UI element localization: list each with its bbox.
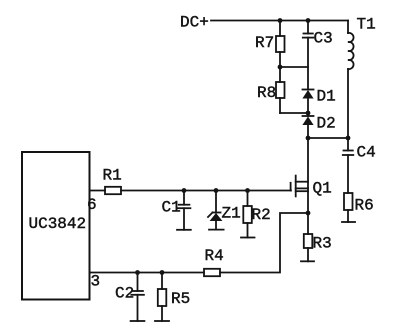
- svg-text:D2: D2: [317, 115, 336, 133]
- resistor R1: [105, 187, 121, 194]
- terminal bar R6 bottom: [342, 221, 355, 223]
- resistor R8: [276, 67, 285, 113]
- svg-text:R8: R8: [257, 84, 276, 102]
- svg-text:R7: R7: [255, 34, 274, 52]
- junction dot top rail / R7: [278, 18, 283, 23]
- svg-text:R4: R4: [205, 247, 224, 265]
- wire pin 6 rail: [90, 190, 106, 192]
- svg-text:C1: C1: [162, 199, 181, 217]
- ground R3: [301, 260, 314, 262]
- wire R4 to current-sense node: [220, 213, 308, 273]
- junction dot node B: [278, 65, 283, 70]
- junction dot D1/D2: [306, 111, 311, 116]
- terminal bar C2 bottom: [131, 320, 145, 322]
- transformer T1 primary winding: [348, 21, 354, 139]
- wire pin 3 rail: [90, 272, 205, 274]
- svg-text:R1: R1: [103, 167, 122, 185]
- wire R8 bottom to D1/D2 junction: [280, 112, 308, 114]
- diode D1: [302, 90, 313, 117]
- junction dot node D left: [306, 136, 311, 141]
- junction dot Q1 source / R3: [306, 211, 311, 216]
- svg-text:R6: R6: [355, 197, 374, 215]
- svg-text:R3: R3: [313, 235, 332, 253]
- svg-text:DC+: DC+: [180, 14, 209, 32]
- MOSFET Q1: [291, 138, 308, 213]
- resistor R3: [304, 213, 313, 261]
- capacitor C3: [303, 21, 314, 90]
- svg-text:C4: C4: [357, 144, 376, 162]
- resistor R4: [204, 269, 220, 276]
- junction dot C2: [135, 270, 140, 275]
- wire DC+ top rail: [211, 20, 348, 22]
- svg-text:6: 6: [87, 196, 97, 214]
- svg-text:UC3842: UC3842: [29, 215, 87, 233]
- resistor R2: [243, 191, 252, 238]
- svg-text:Z1: Z1: [222, 205, 241, 223]
- svg-text:R5: R5: [171, 290, 190, 308]
- resistor R7: [276, 21, 285, 68]
- wire node B (R7 bottom to C3/D1 line): [280, 66, 308, 68]
- svg-text:R2: R2: [252, 206, 271, 224]
- capacitor C4: [343, 138, 354, 193]
- terminal bar R5 bottom: [155, 320, 169, 322]
- terminal bar C1 bottom: [177, 229, 191, 231]
- junction dot node D right: [346, 136, 351, 141]
- junction dot top rail / C3: [306, 18, 311, 23]
- resistor R6: [344, 193, 353, 222]
- svg-text:3: 3: [91, 273, 101, 291]
- svg-text:C3: C3: [314, 30, 333, 48]
- svg-text:C2: C2: [115, 285, 134, 303]
- zener diode Z1: [208, 191, 222, 230]
- capacitor C1: [178, 191, 191, 230]
- diode D2: [302, 116, 313, 138]
- junction dot Z1: [214, 188, 219, 193]
- junction dot R2: [245, 188, 250, 193]
- junction dot C1: [182, 188, 187, 193]
- svg-text:T1: T1: [357, 16, 376, 34]
- junction dot R5: [160, 270, 165, 275]
- svg-text:Q1: Q1: [313, 180, 332, 198]
- svg-text:D1: D1: [317, 88, 336, 106]
- terminal bar Z1 bottom: [209, 229, 224, 231]
- terminal bar R2 bottom: [241, 237, 255, 239]
- IC U1 UC3842 box: [22, 152, 90, 300]
- resistor R5: [158, 273, 167, 322]
- wire R1 to gate: [121, 190, 291, 192]
- wire node D (drain rail to T1/C4): [308, 137, 348, 139]
- capacitor C2: [131, 273, 144, 322]
